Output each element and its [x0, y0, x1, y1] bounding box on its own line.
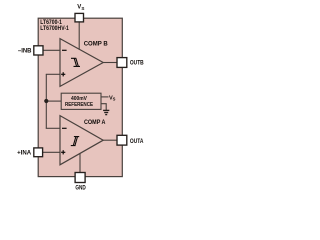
node junction dot: [44, 99, 48, 103]
plus input marker B: [61, 73, 65, 75]
wire reference to VS: [101, 96, 109, 98]
svg-text:S: S: [113, 97, 116, 102]
pin OUTA: [117, 135, 127, 145]
svg-text:S: S: [81, 6, 84, 11]
svg-text:COMP A: COMP A: [84, 119, 106, 126]
wire GND supply from COMP A: [79, 153, 81, 172]
svg-text:GND: GND: [75, 185, 86, 191]
pin +INA: [34, 148, 43, 157]
wire +INA input: [43, 151, 60, 153]
svg-text:LT6700HV-1: LT6700HV-1: [40, 25, 69, 32]
wire reference to ground: [101, 104, 106, 110]
IC body LT6700: [38, 18, 122, 176]
comparator COMP B: [60, 39, 103, 87]
hysteresis symbol A: [71, 137, 79, 146]
pin OUTB: [117, 58, 127, 68]
svg-text:OUTA: OUTA: [130, 139, 144, 145]
wire COMP B plus input: [46, 73, 60, 75]
pin VS: [75, 13, 84, 22]
wire COMP A minus input: [46, 127, 60, 129]
plus input marker A: [61, 151, 65, 153]
wire COMP A output: [103, 139, 117, 141]
minus input marker A: [62, 127, 67, 129]
svg-text:REFERENCE: REFERENCE: [65, 102, 93, 108]
svg-text:–INB: –INB: [18, 49, 32, 55]
svg-text:+INA: +INA: [17, 151, 32, 157]
wire reference to node: [46, 100, 61, 102]
svg-text:OUTB: OUTB: [130, 61, 144, 67]
ground symbol: [103, 109, 109, 111]
reference block 400mV: [61, 93, 101, 109]
comparator COMP A: [60, 116, 103, 165]
hysteresis symbol B: [71, 58, 80, 66]
pin GND: [75, 173, 85, 183]
wire -INB input: [43, 49, 60, 51]
minus input marker B: [62, 49, 67, 51]
wire reference net vertical: [45, 74, 47, 128]
wire COMP B output: [103, 62, 117, 64]
svg-text:COMP B: COMP B: [84, 40, 109, 47]
wire VS supply to COMP B: [78, 22, 80, 50]
pin -INB: [34, 46, 43, 55]
